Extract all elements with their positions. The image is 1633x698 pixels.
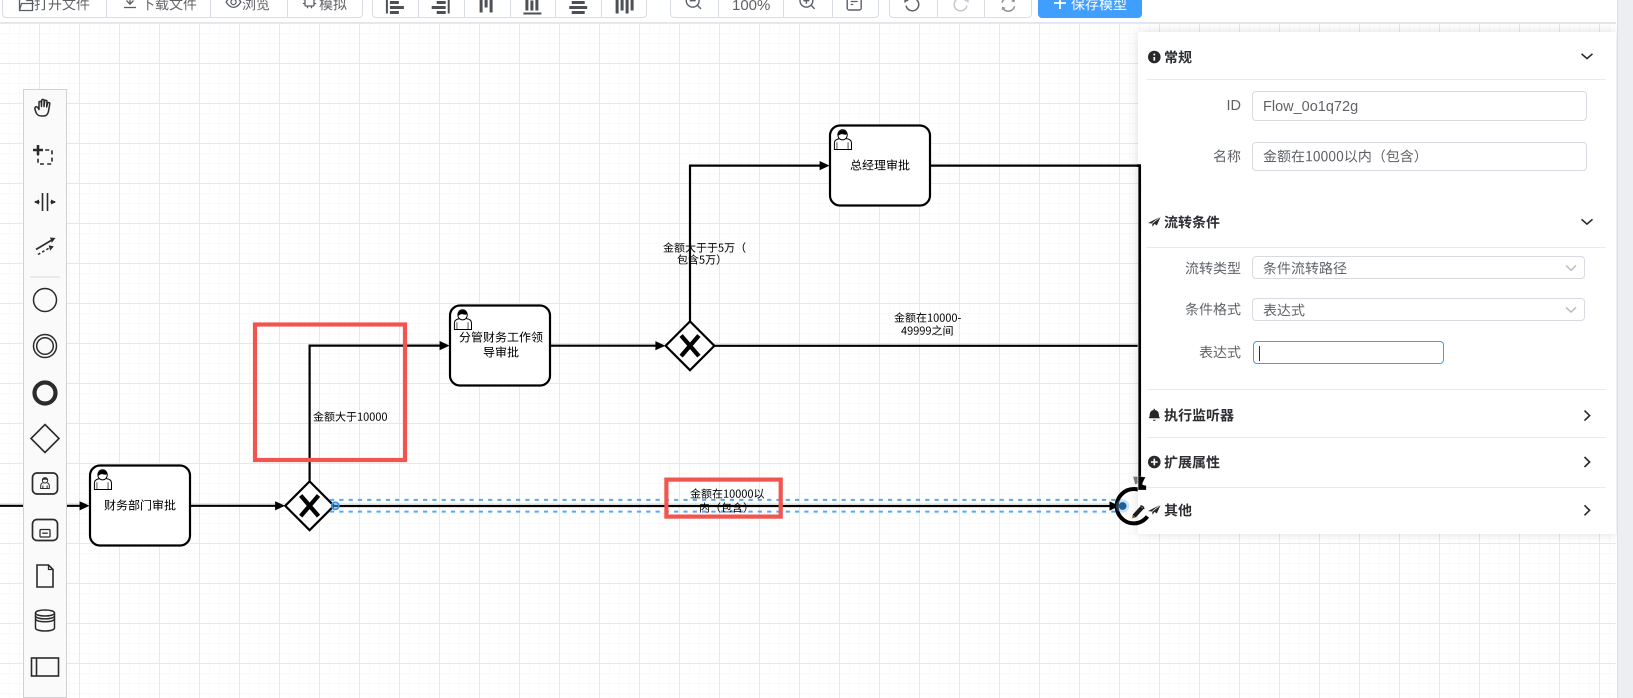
icon plus 扩展属性 [1148,456,1161,469]
label 条件格式 [1185,302,1241,320]
palette: lasso tool [33,145,52,164]
wire over panel: vertical into end event [1137,166,1140,477]
label ID [1200,98,1241,114]
arrow blob into end event [1138,476,1146,490]
wire: 分管财务工作领导审批 to gateway2 [550,345,657,347]
header 常规 [1164,50,1192,68]
selection dashed line bottom [330,511,1117,513]
zoom level 100% [732,0,770,14]
panel divider y=437.2 [1147,437,1606,438]
panel divider y=246.8 [1147,247,1606,248]
task 财务部门审批 [90,466,190,546]
palette: start event [34,289,57,312]
arrowhead remnant (gray) into end event [1133,477,1137,485]
chevron right [1585,411,1590,421]
end event arc over panel [1136,516,1148,523]
selection dashed line top [330,499,1117,501]
icon bell 执行监听器 [1149,409,1161,421]
gateway X 1 [285,481,334,530]
palette: global connect tool [36,238,56,255]
page scrollbar strip [1617,0,1633,698]
palette: space tool [34,193,56,211]
palette container [23,89,67,698]
palette: user task [33,473,58,494]
panel divider y=487 [1147,487,1606,488]
header 执行监听器 [1164,408,1234,426]
select arrow [1566,266,1576,271]
toolbar button group: zoom [670,0,880,18]
button 下载文件 [122,0,138,17]
panel divider y=78.7 [1147,79,1606,80]
wire: gateway2 up-right to 总经理审批 [689,166,691,322]
button 打开文件 [18,0,34,17]
toolbar bottom border [0,22,1616,23]
chevron right [1585,457,1590,467]
input ID [1252,91,1587,121]
input 名称 [1252,142,1587,172]
pencil cursor [1130,505,1144,520]
label 流转类型 [1185,261,1241,279]
wire: gateway2 to end event (horizontal) [714,345,1137,347]
undo redo restart icons [0,0,1040,18]
red highlight rectangle 2 [666,480,780,517]
header 其他 [1164,503,1192,521]
text cursor [1259,346,1260,361]
chevron down [1582,54,1593,59]
end event circle [1117,489,1151,523]
palette: sub process [33,520,58,541]
wire: gateway1 to end event (selected) [334,505,1111,507]
palette: hand tool [35,99,50,116]
select 条件格式 [1252,298,1585,321]
palette: document [37,565,53,587]
header 扩展属性 [1164,455,1220,473]
wire: 财务部门审批 to gateway1 [190,505,277,507]
toolbar button group: file actions [2,0,363,18]
selection endpoint marker at end event [1116,499,1130,513]
zoom icons [0,0,900,18]
palette: end event [35,383,56,404]
toolbar button group: undo redo restart [889,0,1032,18]
header 流转条件 [1164,215,1220,233]
input 表达式 focused [1253,341,1444,364]
select 流转类型 [1252,256,1585,279]
red highlight rectangle 1 [255,325,405,461]
button 浏览 [225,0,242,17]
icon info 常规 [1148,51,1161,64]
gateway X 2 [666,321,715,370]
button 模拟 [301,0,318,17]
wire: gateway1 up-right to 分管财务工作领导审批 [309,346,311,482]
properties panel [1138,32,1616,534]
palette separator [30,276,60,278]
toolbar button group: align [372,0,647,18]
save button 保存模型 [1038,0,1142,18]
palette: participant [32,658,59,676]
palette: intermediate event [34,335,57,358]
wire: start to 财务部门审批 [0,505,81,507]
icon plane 流转条件 [1148,217,1161,227]
task 总经理审批 [830,126,930,206]
label 名称 [1213,149,1241,167]
label 表达式 [1199,345,1241,363]
wire: 总经理审批 to end event (horizontal) [930,165,1138,167]
align icons [0,0,700,18]
chevron right [1585,505,1590,515]
select arrow [1566,307,1576,312]
palette: data store [36,610,55,631]
palette: gateway [31,425,59,453]
panel divider y=389 [1147,389,1606,390]
selection endpoint marker at gateway1 [332,502,339,509]
chevron down [1582,219,1593,224]
task 分管财务工作领导审批 [450,306,550,386]
icon plane 其他 [1148,505,1161,515]
